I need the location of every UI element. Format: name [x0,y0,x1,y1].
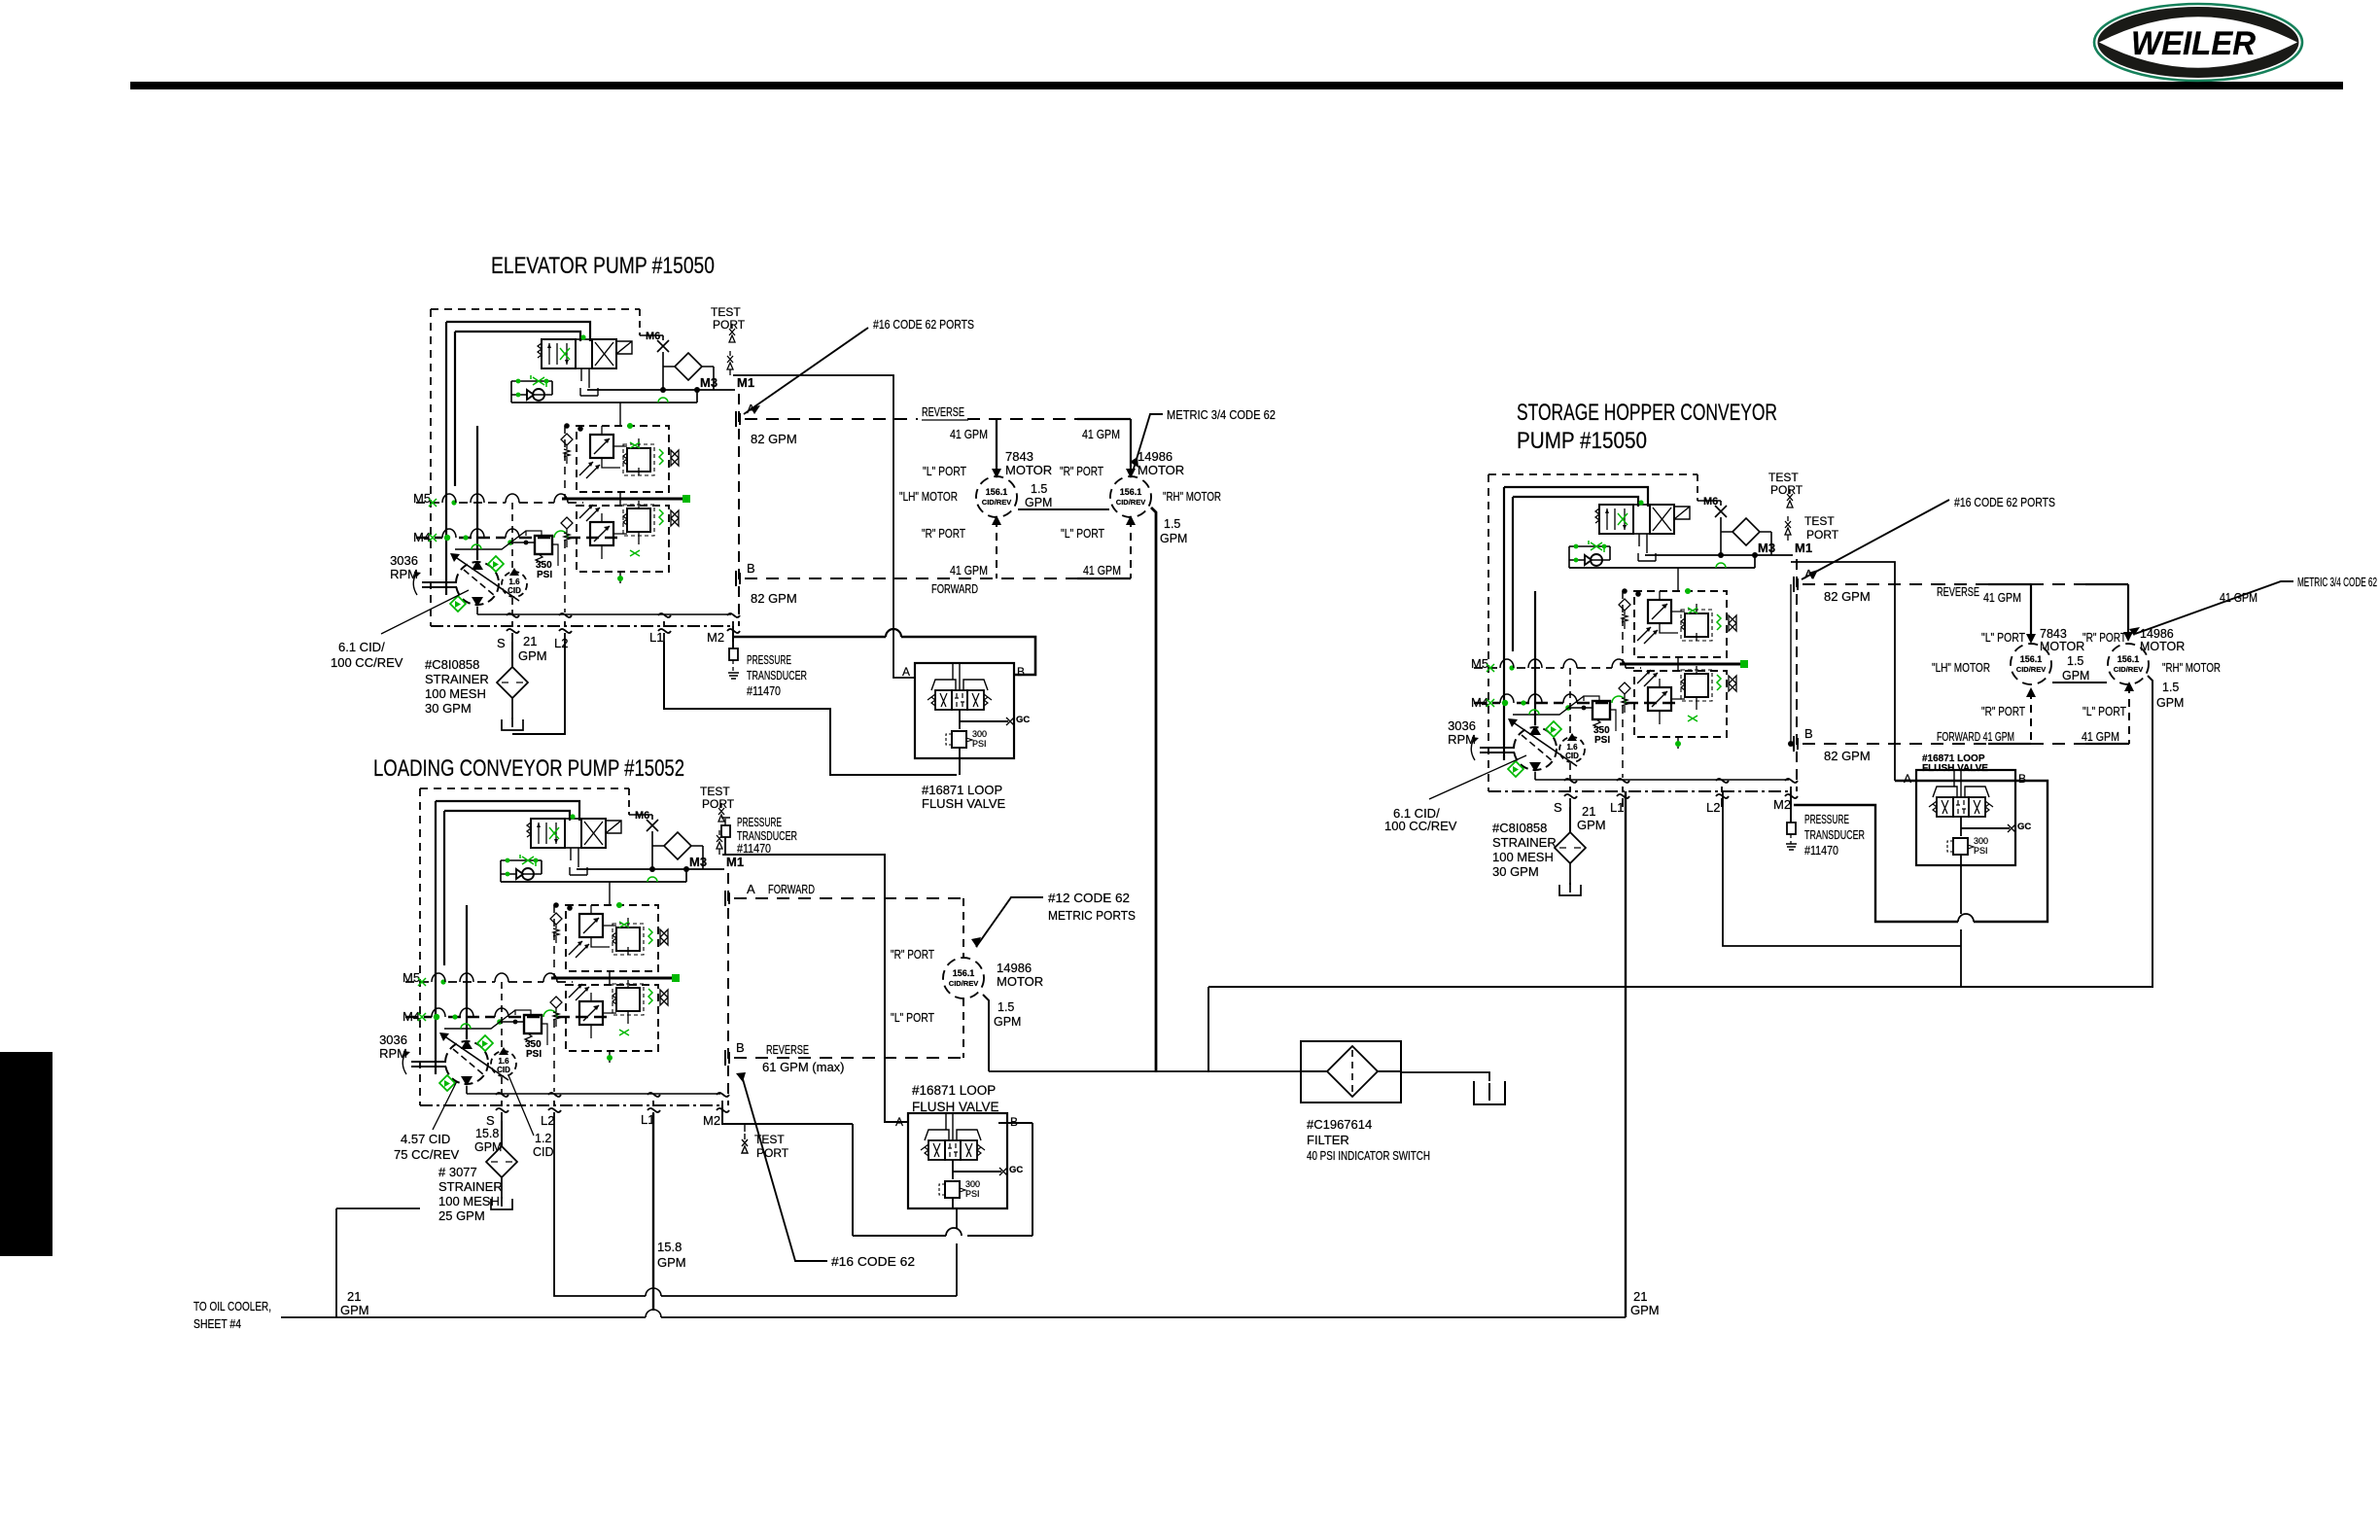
svg-text:GPM: GPM [1160,532,1187,545]
C3 motor case link [2052,682,2107,683]
svg-text:15.8: 15.8 [475,1127,499,1140]
svg-text:"R" PORT: "R" PORT [2082,631,2126,645]
C3 M2 heavy line to flush valve B [1794,781,2047,922]
C1 port A coupling [736,411,740,427]
svg-text:LOADING CONVEYOR PUMP #1505: LOADING CONVEYOR PUMP #15052 [373,755,684,782]
return filter #C1967614 [1301,1041,1401,1102]
svg-text:6.1 CID/: 6.1 CID/ [338,640,385,654]
C1 M2 heavy line to flush valve B [733,629,1035,675]
C1 M1 supply line to flush valve A [733,375,915,678]
svg-text:CID/REV: CID/REV [1116,498,1145,507]
svg-text:B: B [736,1040,745,1055]
svg-text:CID/REV: CID/REV [2114,665,2143,674]
C2 port B coupling [725,1050,729,1066]
svg-text:82 GPM: 82 GPM [1824,589,1871,604]
C3 L1 drain to cooler [1625,791,1627,1317]
svg-text:TRANSDUCER: TRANSDUCER [1804,827,1865,842]
svg-text:L1: L1 [641,1112,654,1127]
C2 pump right dashed edge [727,873,729,1105]
svg-text:PORT: PORT [756,1146,789,1160]
svg-text:82 GPM: 82 GPM [1824,749,1871,763]
C2 M2 line to flush valve U [722,1105,1032,1236]
svg-text:L2: L2 [554,636,568,650]
C3 motor RH 14986 [2108,644,2149,684]
C2 A forward line [734,898,963,958]
svg-text:#11470: #11470 [747,683,781,698]
svg-text:GPM: GPM [474,1140,502,1154]
C3 M1 line to flush valve A [1791,562,1895,781]
svg-text:1.5: 1.5 [997,1000,1014,1014]
loop flush valve FV1 (elevator) [902,663,1030,758]
svg-text:#C1967614: #C1967614 [1307,1117,1372,1132]
C1 B forward line [745,519,1131,578]
svg-text:#16871 LOOP: #16871 LOOP [912,1083,996,1098]
pump P3 storage hopper pump block [1448,471,1812,895]
svg-text:L1: L1 [649,630,663,645]
svg-text:PRESSURE: PRESSURE [737,815,782,829]
svg-text:14986: 14986 [997,961,1032,975]
svg-text:L2: L2 [1706,800,1720,815]
C2 leader #16 code 62 [743,1079,827,1261]
svg-text:CID/REV: CID/REV [949,979,978,988]
svg-text:FLUSH VALVE: FLUSH VALVE [922,796,1006,811]
svg-text:41 GPM: 41 GPM [1082,428,1120,441]
svg-text:PUMP #15050: PUMP #15050 [1517,428,1647,454]
C1 motor case link [1018,508,1109,510]
C2 M1 pressure transducer [721,818,730,855]
svg-text:1.5: 1.5 [2067,654,2083,668]
C3 B forward line [1802,685,2129,744]
svg-text:PRESSURE: PRESSURE [747,652,791,667]
hopper return line upper [1208,986,2152,988]
svg-text:41 GPM: 41 GPM [1083,564,1121,577]
svg-text:B: B [747,561,755,576]
C3 M2 pressure transducer [1786,791,1797,850]
svg-text:41 GPM: 41 GPM [2082,730,2119,744]
svg-text:MOTOR: MOTOR [2140,640,2185,653]
svg-text:30 GPM: 30 GPM [1492,864,1539,879]
svg-text:"LH" MOTOR: "LH" MOTOR [899,490,958,504]
svg-text:GPM: GPM [1630,1303,1660,1317]
svg-text:"L" PORT: "L" PORT [1061,527,1104,541]
svg-text:METRIC PORTS: METRIC PORTS [1048,908,1136,923]
svg-text:FORWARD: FORWARD [768,883,815,896]
svg-text:CID/REV: CID/REV [982,498,1011,507]
svg-text:"RH" MOTOR: "RH" MOTOR [1163,490,1221,504]
C1 L2 drain to tank [512,642,565,734]
svg-text:100 MESH: 100 MESH [1492,850,1554,864]
C3 flush drain [1960,865,1962,987]
svg-text:# 3077: # 3077 [438,1165,477,1179]
svg-text:M2: M2 [703,1113,720,1128]
svg-text:156.1: 156.1 [1120,487,1142,497]
svg-text:MOTOR: MOTOR [1137,463,1184,477]
svg-text:#12 CODE 62: #12 CODE 62 [1048,891,1130,905]
svg-text:156.1: 156.1 [953,968,975,978]
svg-text:STRAINER: STRAINER [438,1179,503,1194]
svg-text:156.1: 156.1 [986,487,1008,497]
svg-text:STRAINER: STRAINER [425,672,489,686]
C3 motor LH 7843 [2011,644,2051,684]
svg-text:4.57 CID: 4.57 CID [401,1132,450,1146]
C1 leader metric 3/4 code 62 [1134,414,1163,469]
svg-text:METRIC 3/4 CODE 62: METRIC 3/4 CODE 62 [1167,407,1276,422]
svg-text:SHEET #4: SHEET #4 [193,1316,241,1331]
svg-text:PORT: PORT [1806,528,1839,542]
loop flush valve FV3 (storage hopper) [1904,770,2031,865]
C1 port B coupling [736,571,740,586]
svg-text:7843: 7843 [2040,627,2067,641]
black side tab [0,1052,52,1256]
svg-text:14986: 14986 [2140,627,2174,641]
svg-text:#11470: #11470 [737,841,771,856]
svg-text:GPM: GPM [994,1015,1021,1029]
C2 port A coupling [725,891,729,906]
svg-text:L1: L1 [1610,800,1624,815]
C2 L1 drain to cooler line [652,1113,654,1311]
svg-text:"L" PORT: "L" PORT [891,1011,934,1025]
svg-text:FLUSH VALVE: FLUSH VALVE [1922,763,1988,774]
top rule bar [130,82,2343,89]
svg-text:L2: L2 [541,1113,554,1128]
svg-text:CID/REV: CID/REV [2016,665,2046,674]
C3 leader #16 code 62 ports [1802,500,1949,579]
C3 L2 drain line [1723,791,1961,946]
return tank [1474,1081,1505,1104]
svg-text:21: 21 [1582,804,1595,819]
cooler feed from loading pump [336,1208,420,1317]
WEILER logo [2094,4,2302,81]
svg-text:FLUSH VALVE: FLUSH VALVE [912,1100,999,1114]
svg-text:100 CC/REV: 100 CC/REV [1384,819,1457,833]
pump P2 loading conveyor pump block [379,785,744,1209]
svg-text:82 GPM: 82 GPM [751,432,797,446]
C1 A reverse line [745,419,1131,473]
C2 L2 drain line [554,1121,957,1296]
svg-text:STORAGE HOPPER CONVEYOR: STORAGE HOPPER CONVEYOR [1517,400,1777,426]
svg-text:"L" PORT: "L" PORT [2082,705,2126,718]
svg-text:"L" PORT: "L" PORT [1981,631,2025,645]
svg-text:GPM: GPM [340,1303,369,1317]
C2 B reverse line [734,998,963,1058]
C2 leader #12 code 62 metric ports [976,897,1043,947]
svg-text:MOTOR: MOTOR [2040,640,2084,653]
svg-text:S: S [486,1113,495,1128]
svg-text:#16 CODE 62 PORTS: #16 CODE 62 PORTS [1954,495,2055,509]
svg-text:MOTOR: MOTOR [997,974,1043,989]
svg-text:14986: 14986 [1137,449,1172,464]
C1 L1 drain to flush drain [664,642,960,775]
svg-text:156.1: 156.1 [2020,654,2043,664]
svg-text:41 GPM: 41 GPM [950,428,988,441]
svg-text:FORWARD 41 GPM: FORWARD 41 GPM [1937,730,2014,744]
svg-text:STRAINER: STRAINER [1492,835,1557,850]
C3 A reverse line [1802,584,2128,639]
pump P1 elevator pump block [390,305,754,730]
svg-text:40 PSI INDICATOR SWITCH: 40 PSI INDICATOR SWITCH [1307,1148,1430,1163]
svg-text:GPM: GPM [2156,696,2184,710]
svg-text:S: S [497,636,506,650]
svg-text:MOTOR: MOTOR [1005,463,1052,477]
svg-text:#16 CODE 62 PORTS: #16 CODE 62 PORTS [873,317,974,332]
svg-text:REVERSE: REVERSE [922,405,964,419]
C1 RH motor case drain (thick) [1151,507,1156,1072]
svg-text:#11470: #11470 [1804,843,1838,857]
svg-text:GPM: GPM [1577,818,1606,832]
svg-text:GPM: GPM [2062,669,2089,682]
svg-text:41 GPM: 41 GPM [950,564,988,577]
svg-text:1.5: 1.5 [1164,517,1180,531]
svg-text:41 GPM: 41 GPM [2220,591,2257,605]
to oil cooler line [281,1310,1626,1317]
svg-text:METRIC 3/4 CODE 62: METRIC 3/4 CODE 62 [2297,576,2377,589]
svg-text:75 CC/REV: 75 CC/REV [394,1147,460,1162]
svg-text:A: A [747,882,755,896]
svg-text:21: 21 [347,1289,361,1304]
svg-text:"L" PORT: "L" PORT [923,465,966,478]
C1 motor RH 14986 [1110,476,1151,517]
svg-text:61 GPM (max): 61 GPM (max) [762,1060,845,1074]
svg-text:"R" PORT: "R" PORT [1060,465,1103,478]
svg-text:TO OIL COOLER,: TO OIL COOLER, [193,1299,271,1313]
svg-text:100 CC/REV: 100 CC/REV [331,655,403,670]
svg-text:156.1: 156.1 [2117,654,2140,664]
svg-text:GPM: GPM [518,648,547,663]
svg-text:21: 21 [523,634,537,648]
svg-text:M2: M2 [707,630,724,645]
svg-text:100 MESH: 100 MESH [438,1194,500,1208]
C1 pump right dashed edge [738,394,740,626]
svg-text:ELEVATOR PUMP #15050: ELEVATOR PUMP #15050 [491,253,715,279]
C1 M2 pressure transducer [728,626,739,679]
svg-text:WEILER: WEILER [2131,25,2256,62]
C1 motor LH 7843 [976,476,1017,517]
svg-text:30 GPM: 30 GPM [425,701,472,716]
svg-text:REVERSE: REVERSE [766,1043,809,1057]
svg-text:21: 21 [1633,1289,1647,1304]
svg-text:100 MESH: 100 MESH [425,686,486,701]
C2 flush drain [956,1208,958,1296]
svg-text:"R" PORT: "R" PORT [891,948,934,962]
C3 RH motor case drain to return [1208,676,2152,1072]
svg-text:#C8I0858: #C8I0858 [425,657,479,672]
svg-text:"RH" MOTOR: "RH" MOTOR [2162,661,2221,675]
C3 leader metric 3/4 code 62 [2135,581,2293,634]
C2 M1 line to flush valve A [722,855,908,1122]
C2 motor case drain [983,995,989,1071]
C3 port A coupling [1794,577,1798,592]
C3 port B coupling [1794,736,1798,752]
svg-text:#16871 LOOP: #16871 LOOP [922,783,1002,797]
C1 leader #16 code 62 ports [744,328,868,414]
svg-text:"R" PORT: "R" PORT [1981,705,2025,718]
C2 M2 test port [742,1124,748,1153]
svg-text:S: S [1554,800,1562,815]
svg-text:B: B [1804,726,1813,741]
svg-text:41 GPM: 41 GPM [1983,591,2021,605]
svg-text:TEST: TEST [1804,514,1835,528]
svg-text:"R" PORT: "R" PORT [922,527,965,541]
svg-text:PRESSURE: PRESSURE [1804,812,1849,826]
svg-text:25 GPM: 25 GPM [438,1208,485,1223]
svg-text:"LH" MOTOR: "LH" MOTOR [1932,661,1990,675]
C3 pump right dashed edge [1796,559,1798,791]
svg-text:CID: CID [533,1145,554,1159]
svg-text:1.5: 1.5 [2162,681,2179,694]
svg-text:1.5: 1.5 [1031,482,1047,496]
svg-text:7843: 7843 [1005,449,1033,464]
svg-text:GPM: GPM [657,1255,686,1270]
C2 motor 14986 [943,958,984,998]
svg-text:1.2: 1.2 [535,1132,551,1145]
svg-text:FILTER: FILTER [1307,1133,1349,1147]
loop flush valve FV2 (loading conveyor) [895,1113,1023,1208]
svg-text:TRANSDUCER: TRANSDUCER [747,668,807,682]
svg-text:#C8I0858: #C8I0858 [1492,821,1547,835]
svg-text:REVERSE: REVERSE [1937,585,1979,599]
svg-text:82 GPM: 82 GPM [751,591,797,606]
svg-text:15.8: 15.8 [657,1240,682,1254]
svg-text:#16 CODE 62: #16 CODE 62 [831,1254,915,1269]
svg-text:FORWARD: FORWARD [931,582,978,596]
svg-text:M2: M2 [1773,797,1791,812]
svg-text:GPM: GPM [1025,496,1052,509]
case drain return manifold [989,1071,1489,1081]
